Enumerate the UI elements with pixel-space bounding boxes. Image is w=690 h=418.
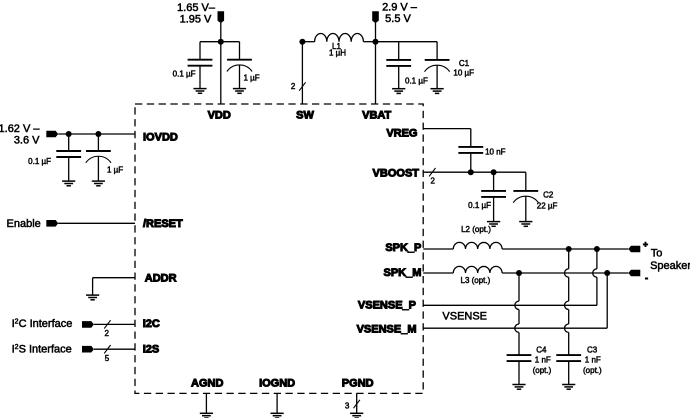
svg-text:AGND: AGND xyxy=(191,377,223,389)
svg-text:I2S Interface: I2S Interface xyxy=(12,343,72,355)
svg-text:VREG: VREG xyxy=(386,128,417,140)
svg-text:(opt.): (opt.) xyxy=(533,366,552,375)
svg-text:1 µF: 1 µF xyxy=(244,73,260,82)
svg-text:3: 3 xyxy=(345,401,350,410)
svg-text:VDD: VDD xyxy=(208,109,231,121)
svg-text:L2 (opt.): L2 (opt.) xyxy=(461,225,491,234)
svg-text:VSENSE_P: VSENSE_P xyxy=(358,299,416,311)
svg-text:PGND: PGND xyxy=(342,377,374,389)
svg-text:(opt.): (opt.) xyxy=(583,366,602,375)
svg-text:0.1 µF: 0.1 µF xyxy=(173,69,196,78)
svg-text:I2C Interface: I2C Interface xyxy=(12,318,73,330)
svg-text:-: - xyxy=(645,273,648,283)
svg-text:5.5 V: 5.5 V xyxy=(385,13,411,25)
svg-text:2: 2 xyxy=(291,82,296,91)
svg-text:2.9 V –: 2.9 V – xyxy=(382,2,418,14)
svg-text:3.6 V: 3.6 V xyxy=(14,134,40,146)
svg-text:C3: C3 xyxy=(587,346,598,355)
svg-text:0.1 µF: 0.1 µF xyxy=(28,157,51,166)
svg-text:22 µF: 22 µF xyxy=(537,201,558,210)
svg-text:I2C: I2C xyxy=(143,318,160,330)
svg-text:SPK_M: SPK_M xyxy=(383,267,421,279)
svg-text:VBOOST: VBOOST xyxy=(373,168,420,180)
svg-text:IOGND: IOGND xyxy=(259,377,295,389)
svg-text:IOVDD: IOVDD xyxy=(143,131,178,143)
svg-text:C4: C4 xyxy=(536,346,547,355)
svg-text:Enable: Enable xyxy=(7,218,41,230)
svg-text:0.1 µF: 0.1 µF xyxy=(405,76,428,85)
svg-text:SW: SW xyxy=(296,109,314,121)
svg-text:1 µF: 1 µF xyxy=(107,165,123,174)
svg-text:VBAT: VBAT xyxy=(362,109,391,121)
svg-text:SPK_P: SPK_P xyxy=(385,242,421,254)
svg-text:10 µF: 10 µF xyxy=(453,69,474,78)
svg-text:10 nF: 10 nF xyxy=(485,148,506,157)
svg-text:Speaker: Speaker xyxy=(650,260,690,272)
svg-text:VSENSE: VSENSE xyxy=(442,311,487,323)
svg-text:1 µH: 1 µH xyxy=(329,49,346,58)
svg-text:+: + xyxy=(643,239,648,249)
svg-text:1 nF: 1 nF xyxy=(535,356,551,365)
svg-text:1.95 V: 1.95 V xyxy=(180,14,212,26)
svg-text:C2: C2 xyxy=(543,190,554,199)
svg-text:2: 2 xyxy=(430,176,435,185)
svg-text:ADDR: ADDR xyxy=(145,273,177,285)
svg-text:VSENSE_M: VSENSE_M xyxy=(357,323,417,335)
svg-text:To: To xyxy=(651,248,663,260)
svg-text:L3 (opt.): L3 (opt.) xyxy=(461,276,491,285)
svg-text:C1: C1 xyxy=(459,59,470,68)
svg-text:1.65 V–: 1.65 V– xyxy=(177,2,216,14)
svg-text:1.62 V –: 1.62 V – xyxy=(0,123,40,135)
svg-text:I2S: I2S xyxy=(143,344,160,356)
svg-text:5: 5 xyxy=(105,354,110,363)
svg-text:/RESET: /RESET xyxy=(143,218,183,230)
svg-text:1 nF: 1 nF xyxy=(585,356,601,365)
svg-text:2: 2 xyxy=(104,329,109,338)
svg-text:0.1 µF: 0.1 µF xyxy=(468,201,491,210)
